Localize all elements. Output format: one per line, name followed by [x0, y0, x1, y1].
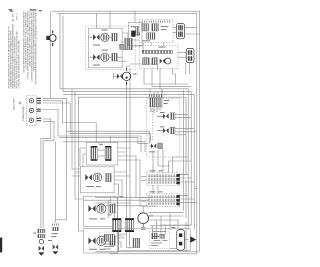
label FM	[149, 214, 154, 217]
wire: right bus drops to bottom	[160, 204, 194, 230]
timer terminal strip	[142, 50, 172, 53]
mark above K1	[102, 29, 108, 32]
cutoff BR2	[133, 238, 140, 247]
element terminals	[177, 174, 180, 177]
switch M1 body L	[91, 147, 97, 159]
label K2	[93, 64, 100, 67]
connector block CN1 (double bar)	[124, 38, 128, 49]
label near P3	[171, 226, 175, 229]
door/oven light switch DS	[49, 35, 56, 42]
relay RY2	[163, 128, 169, 133]
terminal L2	[29, 118, 33, 122]
thermostat body M3	[110, 204, 116, 213]
wire: FM tie	[143, 206, 183, 213]
ignitor BR3	[151, 233, 157, 238]
dash-dot link line	[152, 108, 154, 141]
wire: inner frame left vertical 2	[63, 16, 191, 140]
wire: BR box inner top	[150, 225, 191, 227]
wire: mid column verticals	[72, 89, 84, 231]
relay K2: contact + coil	[93, 54, 100, 60]
wire: M4 exits	[117, 234, 126, 248]
control relay B	[152, 24, 159, 31]
connector P1	[176, 23, 184, 38]
note header marks	[30, 9, 37, 10]
wire: bus line 4	[78, 97, 186, 174]
SA lamp	[39, 239, 43, 243]
wire: T1 internal joins	[100, 37, 112, 57]
lock contact M4	[88, 237, 95, 244]
relay board dashed box RB	[147, 98, 180, 157]
wire: P1 to right frame	[185, 27, 200, 34]
terminal block TB (L1 / N / L2)	[27, 96, 37, 126]
door lock motor box M4	[84, 228, 118, 253]
surface unit switch box M1	[86, 143, 118, 165]
wire: bus bends into E1	[168, 157, 191, 173]
switch M1 body R	[105, 147, 111, 159]
svg-text:NO. 5: NO. 5	[16, 13, 18, 20]
svg-text:SEE NOTE 8: SEE NOTE 8	[14, 97, 16, 110]
thermostat contact M3	[88, 205, 95, 212]
relay RY1	[163, 114, 169, 119]
spark module SM pins	[150, 95, 162, 97]
wire: comb2 underlines	[114, 232, 133, 252]
connector P3	[177, 230, 185, 251]
wire: P3 tie to bus	[170, 240, 188, 249]
terminal L1	[29, 99, 33, 103]
timer contact block	[152, 58, 158, 65]
selector body M2	[105, 173, 111, 181]
wire: T1 right exits	[117, 33, 143, 61]
SA contact	[39, 246, 44, 251]
wire: TR2 to P2	[178, 53, 186, 58]
wire: center pair top hook	[126, 64, 157, 71]
relay K1 body	[112, 33, 117, 41]
wire: L1 feed staircase 2	[43, 103, 151, 142]
wire: right box edge	[183, 90, 185, 211]
BR1 dashes	[104, 244, 114, 249]
bake element E2	[146, 194, 179, 207]
P3 pin1	[179, 233, 182, 237]
wire: M1 exits right	[118, 148, 148, 206]
wire: R1 pin drops	[154, 89, 162, 108]
wire: TR1-TR2 links	[144, 43, 164, 46]
element bar labels	[150, 169, 156, 172]
wire: L2 feed to lock stack 2	[43, 121, 54, 228]
label near stack A	[33, 232, 36, 235]
pressure switch PS	[151, 144, 156, 149]
relay K2 body	[112, 53, 117, 61]
wire: bus line 3	[63, 94, 194, 170]
latch switch box T2	[128, 22, 142, 45]
wire: right bus extra vertical	[185, 180, 187, 252]
wire: RY2 to bus	[175, 129, 197, 135]
svg-text:5. IF ANY ORIGINAL WIRE AS SUP: 5. IF ANY ORIGINAL WIRE AS SUPPLIED MUST…	[35, 11, 38, 85]
FM ground marks	[141, 224, 145, 230]
SM label	[164, 99, 170, 102]
wire: M2 exits	[114, 172, 130, 196]
label near M3 bus	[119, 195, 123, 198]
convection fan motor CF	[117, 74, 123, 80]
svg-text:POWER SUPPLY: POWER SUPPLY	[23, 104, 25, 121]
spark box dashed	[99, 232, 118, 252]
wire: hook pair right	[186, 63, 190, 74]
broil element E1	[146, 173, 179, 186]
mark above K2	[102, 49, 108, 52]
SB pins	[53, 223, 59, 225]
label TR1	[161, 25, 169, 28]
label K1	[93, 44, 100, 47]
wire: left drop from top frame to door switch and terminal row	[50, 11, 52, 99]
wire: bottom bus 2	[110, 222, 197, 254]
wire: T1 to frame top	[96, 11, 110, 28]
control transformer	[147, 33, 155, 39]
lock plug stack SA	[38, 229, 45, 232]
svg-text:8. 3 WIRE CORD CONNECTION SHOW: 8. 3 WIRE CORD CONNECTION SHOWN / 4 WIRE…	[18, 40, 21, 88]
wire: M2 left stubs	[72, 172, 80, 176]
wire: center vertical 2	[129, 68, 131, 218]
wire: L1 feed staircase 1	[43, 99, 149, 144]
wire: bus bends into E2	[153, 185, 197, 193]
cooling fan motor FM	[138, 213, 149, 224]
spark switch cluster BR1	[104, 234, 114, 241]
oven control board box TR1	[139, 20, 173, 43]
element terminals	[177, 195, 180, 198]
wire: right bus continuity	[188, 120, 194, 211]
timer motor	[143, 58, 150, 65]
wire: center vertical 1	[125, 82, 127, 248]
wire: N feed to M1 right	[42, 110, 110, 143]
wire: element bar feeds	[180, 174, 194, 182]
P3 pin2	[179, 242, 182, 246]
page edge mark bottom-left	[0, 238, 2, 253]
wire: FM feed	[149, 216, 184, 228]
edge connector left of TR1	[136, 26, 139, 34]
bake/broil relay box T1	[88, 28, 122, 68]
wire: TR1 to P1	[173, 27, 176, 32]
connector P2	[186, 48, 194, 62]
wire: bus B mid line	[59, 137, 148, 143]
wire: bus B long line	[63, 142, 145, 152]
small buzzer	[160, 58, 165, 63]
clock/timer box TR2	[139, 45, 178, 68]
wire: L1 feed to M1 left	[43, 101, 96, 143]
lock body M4	[110, 237, 116, 246]
wire: bus C line 4	[95, 205, 148, 207]
edge connector CB1	[112, 219, 121, 231]
label near comb	[108, 213, 112, 216]
wire: TR drops to bus	[144, 68, 191, 86]
SB contact	[53, 244, 58, 249]
wire: RY1 to bus	[175, 114, 191, 117]
wire: BR cluster drops	[153, 213, 171, 234]
splice bars L2	[37, 118, 41, 119]
bus C above M3	[84, 198, 153, 203]
wire: inner frame left vertical 1	[60, 13, 188, 120]
label near fan	[133, 73, 137, 76]
page edge mark top-left	[9, 9, 12, 10]
wire: L2 feed to lock stack 1	[41, 119, 51, 229]
wire: outer frame top+right	[52, 11, 200, 251]
wire: stack B feeders	[56, 131, 67, 222]
SM legs	[151, 107, 160, 113]
wire: M1 left stubs	[80, 148, 86, 167]
wire: bottom bus 1	[95, 251, 199, 253]
wire: T1 row left stubs	[88, 37, 93, 57]
wire: fan left stub	[113, 73, 116, 80]
wire: element left stubs	[141, 176, 146, 201]
spark module SM body	[149, 98, 162, 107]
control relay A	[142, 24, 149, 31]
splice bar N	[37, 109, 41, 110]
SB label	[51, 232, 57, 235]
oven selector box M2	[80, 167, 114, 193]
chassis arrow	[190, 236, 196, 242]
wire: second frame line	[57, 13, 197, 222]
relay K1: contact + coil	[93, 34, 100, 40]
splice bars L1	[37, 98, 41, 99]
edge connector CB2	[125, 219, 134, 231]
latch switch contacts	[131, 31, 135, 37]
wire: PS drops to element	[153, 149, 170, 173]
selector contact M2	[85, 174, 92, 180]
terminal N	[29, 108, 33, 112]
wire: T2 up	[134, 11, 136, 22]
wire: N feed crossing	[110, 136, 141, 152]
wire: feeds into SM from bus	[150, 89, 162, 98]
small thermal cutout between relays	[120, 44, 126, 49]
bottom control box BR	[119, 229, 191, 251]
oven thermostat box M3	[84, 196, 118, 226]
ground strap mark	[19, 102, 22, 105]
pin header TR1	[142, 21, 169, 23]
